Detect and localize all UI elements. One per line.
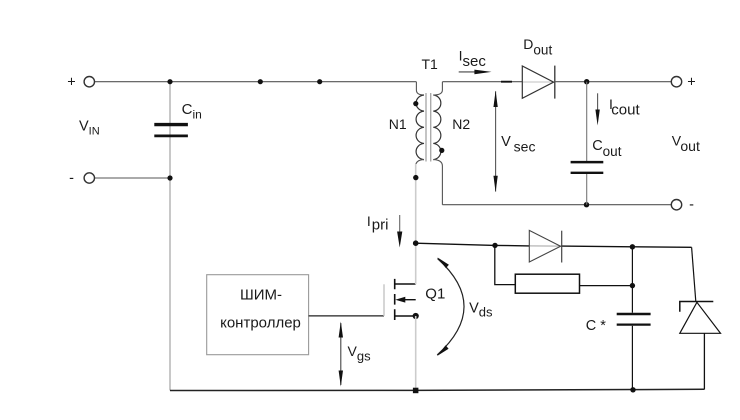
source vertical (gray) [415, 316, 417, 390]
resistor snubber [495, 245, 635, 293]
wire bottom rail [170, 389, 704, 390]
svg-text:T1: T1 [422, 56, 439, 72]
svg-text:ШИМ-: ШИМ- [240, 286, 282, 303]
channel segments [394, 279, 396, 320]
node dot drain junction [413, 240, 419, 246]
voltage arrow V_gs [339, 322, 371, 387]
node dot at Cout top [584, 79, 589, 84]
capacitor Cout [571, 138, 622, 173]
wire Cout vertical [586, 82, 588, 161]
primary top lead [416, 82, 424, 95]
transistor Q1 [384, 164, 445, 390]
wire left vertical rail x=170 [169, 82, 171, 391]
primary bottom lead [416, 160, 424, 166]
current arrow I_sec [459, 47, 492, 74]
transformer T1 [389, 56, 471, 205]
current arrow I_pri [367, 213, 402, 248]
terminal Vout+ [671, 77, 681, 87]
wire snubber vertical [631, 247, 633, 313]
box PWM controller [207, 275, 309, 355]
wire diode to Vout+ [555, 81, 672, 83]
node dot snubber right [630, 244, 635, 249]
wire top bus from Vin+ to transformer primary [95, 81, 417, 83]
secondary phase dot [439, 148, 444, 153]
capacitor C* [586, 314, 651, 334]
secondary winding N2 [433, 95, 441, 160]
terminal Vin- [84, 173, 94, 183]
terminal Vin+ [84, 77, 94, 87]
terminal Vout- [671, 200, 681, 210]
wire secondary top to diode [442, 81, 522, 83]
wire overlap tick [501, 81, 512, 83]
svg-text:N1: N1 [389, 116, 407, 132]
secondary top lead [433, 82, 442, 95]
voltage arrow V_sec [493, 91, 535, 193]
svg-text:контроллер: контроллер [220, 315, 301, 332]
svg-text:N2: N2 [452, 116, 470, 132]
node dots on top bus [167, 79, 172, 84]
node dot bottom rail [630, 387, 635, 392]
node dot secondary bottom [584, 202, 589, 207]
zener diode snubber clamp [680, 247, 721, 389]
current arrow I_cout [595, 93, 640, 125]
svg-text:+: + [67, 75, 75, 91]
diode Dout [522, 36, 555, 99]
wire drain to snubber (black, gray inside diode) [416, 243, 529, 246]
node dot snubber left [492, 243, 497, 248]
primary-to-drain vertical (gray) [415, 164, 417, 243]
svg-text:C *: C * [586, 318, 607, 334]
wire gate lead from PWM box [309, 315, 384, 317]
gate bar [383, 284, 385, 316]
node dot on primary lead [413, 175, 418, 180]
svg-text:+: + [687, 75, 695, 91]
wire Vin- to node [95, 177, 171, 179]
svg-text:Q1: Q1 [425, 286, 445, 303]
secondary bottom lead [433, 160, 442, 205]
primary phase dot [413, 101, 418, 106]
svg-text:-: - [689, 197, 694, 213]
wire secondary bottom rail to Vout- [442, 204, 671, 206]
diode snubber [529, 230, 561, 262]
svg-text:-: - [69, 170, 74, 186]
node dot Vin- junction [167, 175, 172, 180]
capacitor Cin [154, 101, 201, 136]
source stub [395, 315, 416, 317]
drain vertical (gray) [415, 243, 417, 284]
source node dot [413, 313, 419, 319]
drain stub [395, 283, 416, 285]
core lines [425, 93, 427, 162]
body stub with arrow [404, 299, 416, 301]
voltage arc V_ds [437, 257, 493, 356]
primary winding N1 [416, 95, 424, 160]
node square source-bottom junction [413, 388, 419, 394]
